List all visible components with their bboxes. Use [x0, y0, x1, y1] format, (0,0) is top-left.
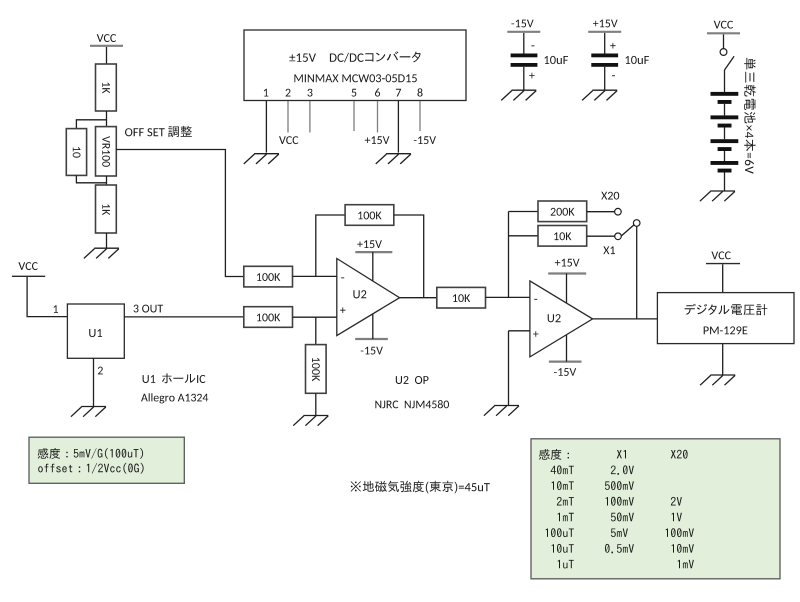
label U1 ホールIC: [143, 373, 206, 383]
label ±15V DC/DCコンバータ: [289, 51, 420, 62]
label X1: [603, 246, 615, 254]
ground (C1): [512, 89, 537, 91]
ground (offset divider): [94, 247, 119, 249]
wire (feedback left): [316, 215, 345, 276]
label OFF SET 調整: [125, 126, 192, 137]
label U2 OP: [396, 376, 429, 384]
terminal X1: [615, 233, 622, 240]
pin 7 wire: [397, 101, 399, 153]
pin 8 wire: [419, 101, 421, 131]
resistor 10K (series): [437, 287, 486, 308]
label - input (U2b): [534, 298, 537, 301]
wire: [723, 34, 725, 48]
op-amp U2b: [530, 281, 593, 357]
power -15V (U2a): [355, 338, 388, 340]
power rail +15V (C2): [588, 31, 621, 33]
wire: [106, 176, 108, 185]
table row 1: [539, 449, 688, 460]
switch SW1 lever: [725, 56, 735, 70]
label - input (U2a): [341, 276, 344, 279]
ground (battery): [710, 190, 735, 192]
wire: [724, 70, 726, 92]
wire: [587, 235, 615, 237]
polarity - (C1): [531, 44, 534, 47]
battery BT1 cells (4x AA): [711, 92, 739, 96]
switch SW1 terminal: [720, 49, 727, 56]
pin 1 label (U1): [54, 305, 59, 313]
resistor 100K (signal input): [244, 307, 293, 328]
capacitor C2 plates: [591, 54, 618, 58]
note box (sensitivity/offset): [29, 437, 184, 483]
label 10uF (C2): [626, 56, 650, 64]
wire: [604, 33, 606, 54]
label 10uF (C1): [545, 56, 569, 64]
wire (feedback bus): [508, 212, 510, 298]
digital voltmeter box: [657, 293, 794, 344]
wire: [315, 393, 317, 415]
pin 6 wire: [377, 101, 379, 133]
hall IC U1 box: [67, 304, 124, 358]
wire: [509, 211, 539, 213]
ground (pin 7): [386, 153, 411, 155]
pin 3 wire: [309, 101, 311, 133]
pin 5 wire: [353, 101, 355, 131]
table row 5: [558, 513, 682, 522]
ground (U2b + input): [494, 405, 519, 407]
wire: [508, 331, 510, 406]
wire: [724, 104, 726, 115]
wire: [486, 296, 530, 298]
wire (U2a output): [400, 297, 437, 299]
resistor 100K (feedback U2a): [345, 205, 394, 226]
ground (voltmeter): [710, 374, 735, 376]
power rail -15V (C1): [507, 31, 540, 33]
wire: [76, 175, 106, 182]
pin 5 number: [352, 89, 357, 97]
pin 6 number: [375, 88, 380, 96]
label MINMAX MCW03-05D15: [294, 74, 416, 82]
wire: [106, 111, 108, 127]
pin 3 number: [307, 89, 312, 97]
resistor 100K (offset input): [244, 266, 293, 287]
ground (U1): [81, 406, 106, 408]
note ※地磁気強度(東京)=45uT: [351, 481, 490, 494]
polarity + (C1): [529, 73, 534, 79]
wire: [523, 33, 525, 54]
wire: [315, 317, 317, 344]
table row 2: [551, 465, 634, 474]
op-amp U2a: [337, 259, 400, 336]
table row 8: [558, 560, 694, 569]
ground (C2): [592, 89, 617, 91]
label X20: [601, 192, 619, 200]
polarity + (C2): [610, 43, 615, 49]
wire (U1 output): [124, 316, 244, 318]
wire: [604, 67, 606, 90]
wire: [587, 211, 615, 213]
resistor 10K (feedback X1): [538, 226, 587, 247]
resistor 100K (to ground): [306, 345, 327, 394]
label + input (U2a): [340, 307, 345, 313]
power rail VCC (U1): [12, 275, 45, 277]
wire (switch to output): [636, 227, 638, 319]
ground (100K): [304, 415, 329, 417]
label VCC (pin 2): [279, 136, 298, 144]
wire: [106, 47, 108, 64]
capacitor C1 plates: [511, 54, 538, 58]
label PM-129E: [704, 326, 748, 334]
label Allegro A1324: [141, 393, 208, 403]
polarity - (C2): [612, 74, 615, 77]
wire: [106, 233, 108, 248]
wire: [293, 275, 337, 277]
table row 3: [552, 481, 634, 490]
resistor R 1K (upper): [96, 64, 117, 111]
wire: [293, 316, 337, 318]
power rail VCC (voltmeter): [706, 263, 740, 265]
wire: [722, 344, 724, 375]
power rail VCC (battery): [707, 32, 740, 34]
wire: [76, 120, 106, 129]
table row 6: [546, 528, 694, 537]
wire: [722, 264, 724, 292]
label + input (U2b): [533, 331, 538, 337]
table row 4: [557, 497, 682, 506]
pin 7 number: [396, 89, 401, 97]
pin 1 wire: [265, 101, 267, 153]
resistor R 1K (lower): [96, 185, 117, 233]
label -15V (pin 8): [414, 136, 436, 144]
label 単三乾電池×4本=6V: [744, 58, 756, 174]
switch SW2 pole: [633, 220, 640, 227]
potentiometer VR100: [96, 127, 117, 176]
power -15V (U2b): [549, 361, 582, 363]
pin 1 number: [264, 89, 269, 97]
power +15V (U2b): [548, 272, 586, 274]
label +15V (pin 6): [365, 136, 390, 144]
pin 2 number: [286, 89, 291, 97]
label 3 OUT: [134, 305, 164, 313]
wire (feedback right): [394, 215, 424, 298]
power +15V (U2a): [355, 251, 392, 253]
note text 感度: [38, 448, 143, 459]
pin 2 wire: [287, 101, 289, 133]
ground (pin 1): [254, 153, 279, 155]
label デジタル電圧計: [685, 304, 768, 316]
pin 8 number: [417, 88, 422, 96]
pin 2 label (U1): [98, 367, 103, 375]
wire: [509, 330, 530, 332]
wire (VR100 wiper to 100K): [116, 150, 244, 277]
switch SW2 lever: [621, 225, 634, 236]
wire: [93, 358, 95, 406]
resistor R 10: [66, 129, 86, 176]
wire: [523, 67, 525, 90]
resistor 200K (feedback X20): [538, 201, 587, 222]
label U2 (U2a): [353, 290, 366, 298]
wire (U2b output): [593, 318, 658, 320]
power rail VCC (offset divider): [90, 45, 123, 47]
table box (ranges): [531, 439, 780, 579]
table row 7: [552, 544, 694, 553]
label U1: [89, 329, 102, 337]
terminal X20: [615, 208, 622, 215]
label NJRC NJM4580: [375, 400, 449, 408]
note text offset: [38, 463, 143, 474]
wire: [509, 235, 539, 237]
label U2 (U2b): [548, 314, 561, 322]
DC/DC converter module box: [244, 30, 466, 101]
wire: [27, 277, 67, 317]
